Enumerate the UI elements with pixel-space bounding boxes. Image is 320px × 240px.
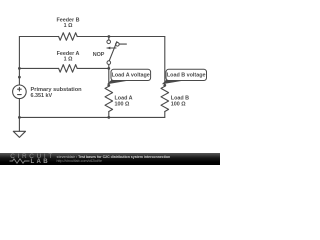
switch SW1 lever [109, 42, 117, 61]
wire load A drop [108, 68, 110, 86]
resistor R Feeder B [59, 33, 78, 41]
circuitlab logo wave [9, 158, 31, 164]
annotation tail Load A voltage [107, 80, 127, 85]
svg-text:100 Ω: 100 Ω [171, 101, 186, 107]
watermark title [57, 155, 171, 159]
svg-text:100 Ω: 100 Ω [115, 101, 130, 107]
voltage source V1 body [13, 85, 27, 99]
voltage source V1 minus [18, 94, 22, 96]
watermark url [57, 159, 103, 163]
watermark bar [0, 153, 220, 165]
svg-text:NOP: NOP [93, 52, 105, 58]
annotation box Load B voltage [166, 69, 207, 80]
svg-text:6.351 kV: 6.351 kV [31, 93, 53, 99]
switch SW1 bottom stub [108, 65, 110, 69]
wire feeder A bus left [19, 67, 58, 69]
annotation box Load A voltage [111, 69, 151, 80]
svg-text:1 Ω: 1 Ω [64, 56, 73, 62]
node dot load B top pin [163, 84, 166, 87]
circuitlab logo LAB [31, 158, 50, 165]
node dot load A / bottom bus [107, 116, 110, 119]
voltage source V1 plus [18, 87, 22, 91]
switch SW1 top terminal [107, 40, 111, 44]
node dot top bus / switch [108, 35, 111, 38]
svg-text:Load B voltage: Load B voltage [167, 73, 206, 79]
switch SW1 arrow line [107, 47, 116, 49]
wire source bottom lead [18, 99, 20, 118]
wire bottom bus [19, 116, 164, 118]
ground triangle [13, 131, 25, 137]
switch SW1 arrow head [107, 47, 111, 50]
node dot feeder A / switch [107, 67, 110, 70]
resistor Load A [105, 86, 113, 111]
ground stem [18, 117, 20, 131]
wire top bus left [19, 36, 58, 38]
svg-text:Load A voltage: Load A voltage [112, 73, 150, 79]
node dot source / bottom bus [18, 116, 21, 119]
switch SW1 throw tick [119, 43, 126, 45]
node dot source top pin [18, 76, 21, 79]
switch SW1 bottom terminal [107, 61, 111, 65]
switch SW1 throw terminal [116, 43, 120, 47]
circuitlab logo CIRCUIT [10, 153, 55, 160]
svg-text:Primary substation: Primary substation [31, 87, 83, 93]
wire load B bottom lead [164, 112, 166, 118]
node dot load A top pin [107, 84, 110, 87]
resistor R Feeder A [59, 65, 78, 73]
resistor Load B [161, 86, 169, 111]
wire load A bottom lead [108, 112, 110, 118]
wire feeder A bus right [77, 67, 109, 69]
switch SW1 top stub [108, 37, 110, 40]
svg-text:1 Ω: 1 Ω [64, 23, 73, 29]
wire right rail [164, 37, 166, 87]
wire left rail [18, 37, 20, 86]
annotation tail Load B voltage [162, 80, 182, 85]
node dot feeder A / rail [18, 67, 21, 70]
wire top bus right [77, 36, 165, 38]
